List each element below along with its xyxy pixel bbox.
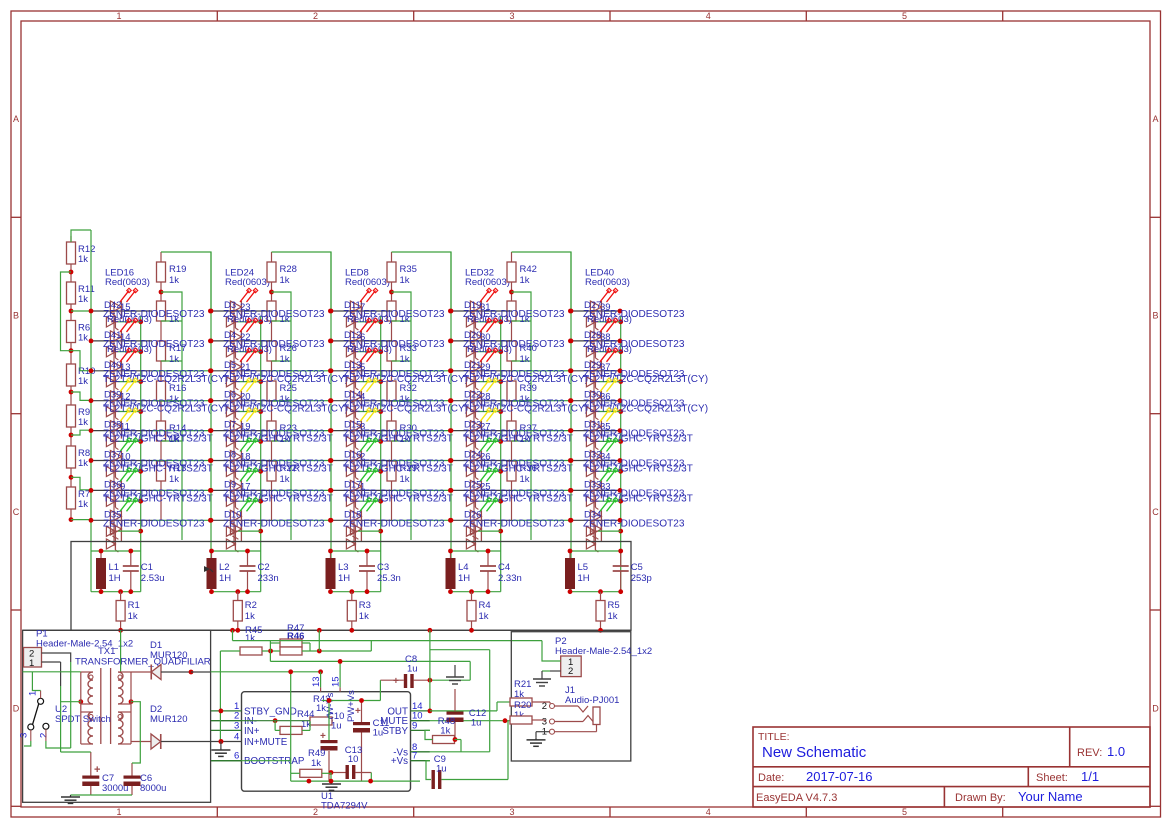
svg-text:TL2TF7/GHC-YRTS2/3T: TL2TF7/GHC-YRTS2/3T — [103, 434, 213, 445]
svg-text:1: 1 — [116, 11, 121, 21]
svg-text:TL2TF7/GHC-YRTS2/3T: TL2TF7/GHC-YRTS2/3T — [223, 464, 333, 475]
svg-text:ZENER-DIODESOT23: ZENER-DIODESOT23 — [463, 518, 565, 529]
svg-text:2.33n: 2.33n — [498, 573, 522, 584]
svg-text:1H: 1H — [458, 573, 470, 584]
svg-text:1k: 1k — [400, 354, 410, 365]
svg-text:TITLE:: TITLE: — [758, 731, 790, 743]
svg-text:TL2T3/T2C-CQ2R2L3T(CY): TL2T3/T2C-CQ2R2L3T(CY) — [223, 374, 348, 385]
svg-text:Red(0603): Red(0603) — [347, 314, 392, 325]
svg-text:3: 3 — [19, 733, 30, 738]
svg-text:1H: 1H — [219, 573, 231, 584]
svg-text:C2: C2 — [258, 562, 270, 573]
svg-text:1H: 1H — [338, 573, 350, 584]
svg-text:ZENER-DIODESOT23: ZENER-DIODESOT23 — [343, 518, 445, 529]
svg-text:5: 5 — [902, 11, 907, 21]
svg-text:A: A — [13, 114, 19, 124]
svg-text:1u: 1u — [407, 664, 418, 675]
svg-text:1k: 1k — [316, 703, 326, 714]
svg-text:C1: C1 — [141, 562, 153, 573]
svg-text:1u: 1u — [471, 718, 482, 729]
svg-text:253p: 253p — [631, 573, 652, 584]
svg-text:L1: L1 — [109, 562, 120, 573]
svg-text:25.3n: 25.3n — [377, 573, 401, 584]
svg-text:TL2TF7/GHC-YRTS2/3T: TL2TF7/GHC-YRTS2/3T — [583, 464, 693, 475]
svg-text:TL2TF7/GHC-YRTS2/3T: TL2TF7/GHC-YRTS2/3T — [343, 493, 453, 504]
svg-text:1H: 1H — [109, 573, 121, 584]
svg-text:1/1: 1/1 — [1081, 769, 1099, 784]
svg-text:1k: 1k — [169, 275, 179, 286]
svg-text:1k: 1k — [78, 376, 88, 387]
svg-text:Red(0603): Red(0603) — [585, 277, 630, 288]
svg-text:SPDT Switch: SPDT Switch — [55, 714, 111, 725]
svg-text:TL2TF7/GHC-YRTS2/3T: TL2TF7/GHC-YRTS2/3T — [103, 464, 213, 475]
svg-text:2: 2 — [542, 701, 547, 712]
svg-text:Red(0603): Red(0603) — [587, 344, 632, 355]
svg-text:1u: 1u — [436, 764, 447, 775]
svg-text:1k: 1k — [440, 726, 450, 737]
svg-text:TRANSFORMER_QUADFILIAR: TRANSFORMER_QUADFILIAR — [75, 657, 211, 668]
svg-text:2: 2 — [39, 733, 50, 738]
svg-text:1k: 1k — [479, 611, 489, 622]
svg-text:Drawn By:: Drawn By: — [955, 792, 1006, 804]
svg-text:1k: 1k — [78, 417, 88, 428]
svg-text:2: 2 — [313, 11, 318, 21]
svg-text:TL2TF7/GHC-YRTS2/3T: TL2TF7/GHC-YRTS2/3T — [223, 493, 333, 504]
svg-text:1k: 1k — [78, 294, 88, 305]
svg-text:L4: L4 — [458, 562, 469, 573]
svg-text:4: 4 — [234, 732, 239, 743]
svg-text:Red(0603): Red(0603) — [105, 277, 150, 288]
svg-text:Red(0603): Red(0603) — [467, 314, 512, 325]
svg-text:TL2T3/T2C-CQ2R2L3T(CY): TL2T3/T2C-CQ2R2L3T(CY) — [463, 374, 588, 385]
svg-text:TDA7294V: TDA7294V — [321, 801, 368, 812]
svg-text:1: 1 — [28, 691, 39, 696]
svg-text:D: D — [13, 703, 20, 713]
svg-text:TL2T3/T2C-CQ2R2L3T(CY): TL2T3/T2C-CQ2R2L3T(CY) — [223, 404, 348, 415]
svg-text:233n: 233n — [258, 573, 279, 584]
svg-text:TL2TF7/GHC-YRTS2/3T: TL2TF7/GHC-YRTS2/3T — [583, 434, 693, 445]
svg-text:Red(0603): Red(0603) — [227, 344, 272, 355]
svg-text:Red(0603): Red(0603) — [227, 314, 272, 325]
svg-text:Header-Male-2.54_1x2: Header-Male-2.54_1x2 — [36, 639, 133, 650]
svg-text:Your Name: Your Name — [1018, 789, 1083, 804]
svg-text:1: 1 — [116, 807, 121, 817]
svg-text:TL2T3/T2C-CQ2R2L3T(CY): TL2T3/T2C-CQ2R2L3T(CY) — [583, 404, 708, 415]
svg-text:1k: 1k — [78, 499, 88, 510]
svg-text:L3: L3 — [338, 562, 349, 573]
svg-text:TL2T3/T2C-CQ2R2L3T(CY): TL2T3/T2C-CQ2R2L3T(CY) — [343, 374, 468, 385]
svg-text:R5: R5 — [608, 600, 620, 611]
svg-text:TL2T3/T2C-CQ2R2L3T(CY): TL2T3/T2C-CQ2R2L3T(CY) — [583, 374, 708, 385]
svg-text:R4: R4 — [479, 600, 491, 611]
svg-text:R3: R3 — [359, 600, 371, 611]
svg-text:1k: 1k — [78, 333, 88, 344]
svg-text:1k: 1k — [520, 275, 530, 286]
svg-text:TL2T3/T2C-CQ2R2L3T(CY): TL2T3/T2C-CQ2R2L3T(CY) — [103, 404, 228, 415]
svg-text:C3: C3 — [377, 562, 389, 573]
svg-text:R19: R19 — [169, 264, 186, 275]
svg-text:TL2TF7/GHC-YRTS2/3T: TL2TF7/GHC-YRTS2/3T — [343, 434, 453, 445]
svg-text:Red(0603): Red(0603) — [467, 344, 512, 355]
svg-text:TL2TF7/GHC-YRTS2/3T: TL2TF7/GHC-YRTS2/3T — [463, 464, 573, 475]
svg-text:Header-Male-2.54_1x2: Header-Male-2.54_1x2 — [555, 646, 652, 657]
svg-text:Red(0603): Red(0603) — [107, 314, 152, 325]
svg-text:8000u: 8000u — [140, 783, 166, 794]
svg-text:4: 4 — [706, 807, 711, 817]
svg-text:Red(0603): Red(0603) — [345, 277, 390, 288]
svg-text:1H: 1H — [578, 573, 590, 584]
svg-text:New Schematic: New Schematic — [762, 744, 867, 761]
svg-text:EasyEDA V4.7.3: EasyEDA V4.7.3 — [756, 792, 837, 804]
svg-text:TL2T3/T2C-CQ2R2L3T(CY): TL2T3/T2C-CQ2R2L3T(CY) — [463, 404, 588, 415]
svg-text:C: C — [13, 507, 20, 517]
svg-text:1k: 1k — [78, 254, 88, 265]
svg-text:1k: 1k — [128, 611, 138, 622]
svg-text:Date:: Date: — [758, 772, 784, 784]
svg-text:B: B — [13, 311, 19, 321]
svg-text:2017-07-16: 2017-07-16 — [806, 769, 873, 784]
svg-text:Audio-PJ001: Audio-PJ001 — [565, 695, 619, 706]
svg-text:A: A — [1152, 114, 1158, 124]
svg-text:C: C — [1152, 507, 1159, 517]
svg-text:1k: 1k — [245, 611, 255, 622]
svg-text:TL2TF7/GHC-YRTS2/3T: TL2TF7/GHC-YRTS2/3T — [343, 464, 453, 475]
svg-text:1k: 1k — [78, 458, 88, 469]
svg-text:3: 3 — [509, 11, 514, 21]
svg-text:Red(0603): Red(0603) — [107, 344, 152, 355]
svg-text:C5: C5 — [631, 562, 643, 573]
svg-text:BOOTSTRAP: BOOTSTRAP — [244, 756, 305, 767]
svg-text:TL2TF7/GHC-YRTS2/3T: TL2TF7/GHC-YRTS2/3T — [463, 493, 573, 504]
svg-text:1k: 1k — [400, 275, 410, 286]
svg-text:ZENER-DIODESOT23: ZENER-DIODESOT23 — [103, 518, 205, 529]
svg-text:5: 5 — [902, 807, 907, 817]
svg-text:C4: C4 — [498, 562, 510, 573]
svg-text:+: + — [393, 676, 399, 687]
svg-text:1k: 1k — [359, 611, 369, 622]
svg-text:REV:: REV: — [1077, 747, 1102, 759]
svg-text:D: D — [1152, 703, 1159, 713]
svg-text:3: 3 — [509, 807, 514, 817]
svg-text:Red(0603): Red(0603) — [465, 277, 510, 288]
svg-text:ZENER-DIODESOT23: ZENER-DIODESOT23 — [223, 518, 325, 529]
svg-text:+: + — [355, 706, 361, 717]
svg-text:R2: R2 — [245, 600, 257, 611]
svg-text:1k: 1k — [608, 611, 618, 622]
svg-text:Red(0603): Red(0603) — [587, 314, 632, 325]
svg-text:1k: 1k — [520, 354, 530, 365]
svg-text:R42: R42 — [520, 264, 537, 275]
svg-text:1u: 1u — [331, 721, 342, 732]
svg-text:TL2TF7/GHC-YRTS2/3T: TL2TF7/GHC-YRTS2/3T — [583, 493, 693, 504]
svg-text:MUR120: MUR120 — [150, 714, 188, 725]
svg-text:L2: L2 — [219, 562, 230, 573]
svg-text:Red(0603): Red(0603) — [347, 344, 392, 355]
svg-text:R28: R28 — [280, 264, 297, 275]
svg-text:L5: L5 — [578, 562, 589, 573]
svg-text:4: 4 — [706, 11, 711, 21]
svg-text:TL2T3/T2C-CQ2R2L3T(CY): TL2T3/T2C-CQ2R2L3T(CY) — [343, 404, 468, 415]
svg-text:1: 1 — [29, 658, 34, 669]
svg-text:R1: R1 — [128, 600, 140, 611]
svg-text:MUR120: MUR120 — [150, 650, 188, 661]
svg-text:1k: 1k — [169, 474, 179, 485]
svg-text:Red(0603): Red(0603) — [225, 277, 270, 288]
svg-text:TL2T3/T2C-CQ2R2L3T(CY): TL2T3/T2C-CQ2R2L3T(CY) — [103, 374, 228, 385]
svg-text:R35: R35 — [400, 264, 417, 275]
svg-text:1k: 1k — [280, 275, 290, 286]
svg-text:Sheet:: Sheet: — [1036, 772, 1068, 784]
svg-text:TL2TF7/GHC-YRTS2/3T: TL2TF7/GHC-YRTS2/3T — [223, 434, 333, 445]
svg-text:1k: 1k — [311, 758, 321, 769]
svg-text:+: + — [94, 764, 100, 776]
svg-text:1k: 1k — [169, 354, 179, 365]
svg-text:1k: 1k — [245, 633, 255, 644]
svg-text:1k: 1k — [520, 474, 530, 485]
svg-text:2: 2 — [313, 807, 318, 817]
svg-text:10: 10 — [348, 754, 359, 765]
svg-text:1u: 1u — [373, 728, 384, 739]
svg-text:1.0: 1.0 — [1107, 744, 1125, 759]
svg-text:2: 2 — [568, 666, 573, 677]
svg-text:1k: 1k — [400, 474, 410, 485]
svg-text:TL2TF7/GHC-YRTS2/3T: TL2TF7/GHC-YRTS2/3T — [463, 434, 573, 445]
svg-text:ZENER-DIODESOT23: ZENER-DIODESOT23 — [583, 518, 685, 529]
svg-text:1k: 1k — [280, 354, 290, 365]
svg-text:TX1: TX1 — [98, 646, 115, 657]
svg-text:2.53u: 2.53u — [141, 573, 165, 584]
svg-text:+Vs: +Vs — [391, 756, 408, 767]
svg-text:B: B — [1152, 311, 1158, 321]
svg-text:TL2TF7/GHC-YRTS2/3T: TL2TF7/GHC-YRTS2/3T — [103, 493, 213, 504]
svg-text:IN+: IN+ — [244, 726, 260, 737]
svg-text:IN+MUTE: IN+MUTE — [244, 737, 288, 748]
svg-text:1k: 1k — [280, 474, 290, 485]
